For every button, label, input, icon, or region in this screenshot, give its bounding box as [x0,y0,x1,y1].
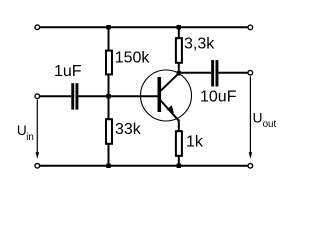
svg-text:1k: 1k [186,134,204,151]
svg-text:1uF: 1uF [54,63,82,80]
svg-text:out: out [263,119,277,130]
svg-text:33k: 33k [115,121,142,138]
svg-text:10uF: 10uF [200,89,237,106]
svg-text:in: in [26,132,34,143]
svg-text:150k: 150k [115,50,151,67]
svg-text:3,3k: 3,3k [184,36,215,53]
svg-text:U: U [253,111,263,126]
